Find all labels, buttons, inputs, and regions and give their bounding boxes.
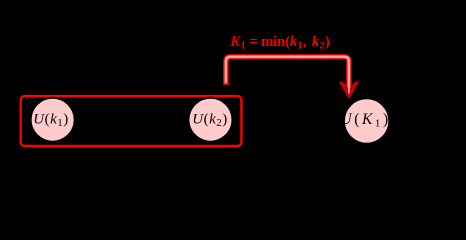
merge set rounded box <box>21 96 242 146</box>
svg-text:U(k2): U(k2) <box>192 112 228 130</box>
circle U(k2) <box>189 98 233 142</box>
arrowhead <box>340 82 358 98</box>
svg-text:U(K1): U(K1) <box>340 111 390 130</box>
circle U(k1) <box>31 98 75 142</box>
svg-text:U(k1): U(k1) <box>33 112 69 130</box>
arrow (tube) <box>226 57 349 91</box>
circle U(K1) <box>344 98 389 143</box>
